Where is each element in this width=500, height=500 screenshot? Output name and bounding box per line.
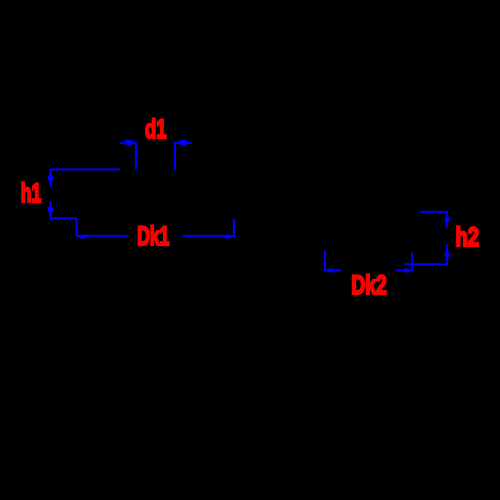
dimension h1 down arrowhead (48, 207, 53, 218)
dimension d1 left arrowhead (125, 140, 137, 145)
dimension h2 up arrowhead (445, 212, 450, 222)
dimension Dk1 left arrowhead (77, 235, 86, 239)
svg-text:d1: d1 (145, 114, 167, 144)
dimension d1 right extension line (174, 142, 176, 170)
dimension Dk2 line right segment (396, 269, 413, 271)
dimension d1 right arrowhead (175, 140, 187, 145)
dimension h2 top extension line (420, 211, 448, 213)
dimension Dk1 right arrowhead (225, 235, 234, 239)
dimension Dk1 left jog (75, 218, 77, 236)
dimension Dk2 right extension line (411, 253, 413, 272)
dimension h2 shaft lower (446, 244, 448, 264)
svg-text:Dk2: Dk2 (351, 270, 387, 300)
dimension h2 shaft upper (446, 212, 448, 228)
dimension h1 shaft lower (49, 201, 51, 218)
dimension h1 up arrowhead (48, 170, 53, 181)
svg-text:h2: h2 (456, 222, 480, 252)
dimension Dk1 right extension line (233, 219, 235, 237)
dimension Dk2 left extension line (324, 250, 326, 271)
dimension h1 shaft upper (49, 169, 51, 187)
dimension d1 left shaft (120, 142, 137, 144)
dimension d1 right shaft (175, 142, 192, 144)
svg-text:h1: h1 (21, 178, 42, 208)
svg-text:Dk1: Dk1 (137, 221, 169, 251)
dimension h2 bottom extension line (404, 263, 448, 265)
dimension d1 left extension line (135, 142, 137, 169)
dimension Dk2 line left segment (325, 269, 341, 271)
dimension h1 bottom extension line (51, 217, 77, 219)
dimension Dk1 line right segment (183, 235, 234, 237)
dimension Dk2 right arrowhead (404, 269, 412, 273)
dimension h2 down arrowhead (445, 252, 450, 264)
dimension Dk1 line left segment (77, 235, 128, 237)
dimension h1 top extension line (51, 168, 120, 170)
dimension Dk2 left arrowhead (325, 269, 333, 273)
